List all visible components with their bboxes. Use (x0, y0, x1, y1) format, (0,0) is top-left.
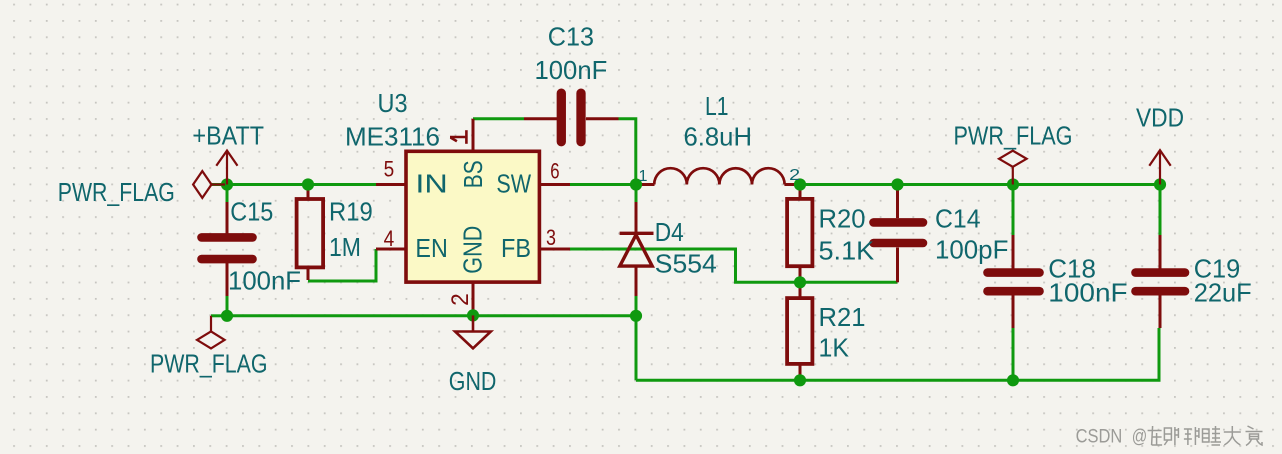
svg-text:VDD: VDD (1136, 103, 1184, 133)
diode D4 (620, 233, 654, 266)
svg-text:R19: R19 (329, 197, 373, 227)
pin R20 bottom (799, 266, 802, 282)
power PWR_FLAG bottom left (197, 316, 225, 349)
pin U3 SW stub (539, 183, 570, 186)
power VDD arrow (1149, 150, 1170, 184)
watermark chinese glyphs (1148, 426, 1263, 446)
svg-text:1K: 1K (819, 333, 850, 363)
node pin2/GND junction (467, 309, 479, 321)
pin R19 top (307, 185, 310, 200)
node R21 bottom junction (794, 374, 806, 386)
svg-text:ME3116: ME3116 (345, 122, 440, 152)
wire FB net (570, 249, 898, 282)
pin U3 EN stub (376, 248, 406, 251)
node FB/R20/R21 junction (794, 276, 806, 288)
power +BATT arrow (216, 151, 237, 185)
svg-text:22uF: 22uF (1194, 278, 1252, 308)
resistor R21 (787, 298, 812, 364)
pin C15 bottom (226, 263, 229, 296)
wire bottom rail (636, 328, 1159, 380)
svg-text:PWR_FLAG: PWR_FLAG (954, 121, 1073, 151)
svg-text:U3: U3 (378, 88, 408, 118)
node C15 bottom junction (221, 310, 233, 322)
svg-text:2: 2 (447, 293, 474, 306)
svg-text:4: 4 (384, 226, 395, 251)
op-amp U3 body (406, 151, 539, 282)
node C18 bottom junction (1007, 374, 1019, 386)
svg-text:100nF: 100nF (228, 266, 301, 296)
svg-text:2: 2 (789, 167, 800, 184)
svg-text:CSDN: CSDN (1076, 427, 1123, 448)
svg-text:5.1K: 5.1K (819, 236, 875, 266)
pin numbers dark red (384, 157, 560, 306)
wire R19 to EN (308, 249, 376, 281)
svg-text:EN: EN (415, 233, 447, 263)
pin R20 top (799, 185, 802, 200)
pin C14 top (896, 185, 899, 219)
node C18/PWR_FLAG junction (1007, 178, 1019, 190)
svg-text:R20: R20 (819, 204, 866, 234)
wire main rail left (211, 183, 377, 186)
svg-text:C15: C15 (230, 197, 273, 227)
pin C18 bottom (1012, 296, 1015, 329)
pin U3 IN stub (376, 183, 406, 186)
node L1/R20 junction (794, 178, 806, 190)
pin D4 cathode (635, 202, 638, 233)
wire C15 bottom (226, 296, 229, 316)
pin C13 right (586, 117, 619, 120)
svg-text:6: 6 (550, 158, 559, 183)
svg-text:1: 1 (639, 168, 648, 185)
svg-text:GND: GND (457, 226, 487, 274)
svg-text:SW: SW (496, 169, 531, 199)
svg-text:D4: D4 (655, 217, 684, 247)
wire main rail mid (570, 183, 638, 186)
pin L1 right (784, 183, 800, 186)
svg-text:@: @ (1132, 427, 1148, 448)
wire pwrflag bottom stub (211, 314, 227, 317)
pin D4 anode (635, 266, 638, 296)
pin L1 left (636, 183, 655, 186)
power PWR_FLAG left (193, 171, 225, 198)
resistor R19 (297, 199, 324, 267)
svg-text:100nF: 100nF (535, 55, 608, 85)
svg-text:3: 3 (546, 225, 556, 250)
pin U3 BS stub (472, 119, 475, 152)
wire D4 bottom (635, 296, 638, 316)
svg-text:GND: GND (449, 366, 497, 396)
wire C15 top (226, 185, 229, 203)
capacitor C14 (874, 222, 924, 243)
svg-text:1M: 1M (329, 232, 361, 262)
labels teal (58, 22, 1252, 397)
pin C13 left (524, 117, 557, 120)
watermark CSDN (1076, 427, 1148, 448)
svg-text:L1: L1 (705, 91, 729, 121)
node R19 top junction (302, 178, 314, 190)
capacitor C13 (561, 93, 581, 142)
wire BS to C13 (473, 117, 524, 120)
svg-text:PWR_FLAG: PWR_FLAG (150, 349, 268, 379)
wire C18 top (1012, 185, 1015, 236)
node PWR_FLAG/+BATT junction (221, 178, 233, 190)
capacitor C18 (988, 273, 1040, 292)
node SW/C13/L1/D4 junction (630, 178, 642, 190)
svg-text:BS: BS (458, 160, 488, 188)
svg-text:100nF: 100nF (1048, 278, 1127, 308)
wire gnd rail (227, 314, 636, 317)
pin C18 top (1012, 235, 1015, 269)
svg-text:6.8uH: 6.8uH (684, 122, 753, 152)
capacitor C19 (1136, 273, 1186, 292)
pin R21 top (799, 282, 802, 298)
wire main rail right (797, 183, 1160, 186)
svg-text:R21: R21 (819, 302, 866, 332)
node D4 bottom junction (630, 310, 642, 322)
resistor R20 (787, 199, 812, 266)
pin C19 bottom (1159, 296, 1162, 329)
svg-text:100pF: 100pF (935, 235, 1008, 265)
node C14 top junction (891, 178, 903, 190)
pin R19 bottom (307, 267, 310, 280)
wire D4 top (635, 185, 638, 203)
capacitor C15 (202, 237, 253, 259)
pin R21 bottom (799, 364, 802, 380)
node VDD/C19 junction (1154, 178, 1166, 190)
pin number 1 rotated (drawn) (450, 130, 467, 144)
ground symbol (455, 315, 491, 348)
wire C13 to SW node (619, 119, 636, 185)
wire C18 bottom (1012, 328, 1015, 380)
svg-text:+BATT: +BATT (193, 121, 265, 151)
inductor L1 (654, 168, 784, 184)
svg-text:PWR_FLAG: PWR_FLAG (58, 177, 175, 207)
power PWR_FLAG top (999, 151, 1027, 185)
svg-text:FB: FB (501, 233, 531, 263)
wire D4 to bottom rail (635, 316, 638, 381)
pin C19 top (1159, 235, 1162, 269)
svg-text:5: 5 (384, 157, 395, 182)
pin C14 bottom (896, 248, 899, 283)
svg-text:C13: C13 (548, 22, 594, 52)
pin U3 FB stub (539, 248, 570, 251)
pin U3 pin2 stub (472, 282, 475, 315)
svg-text:IN: IN (415, 169, 447, 199)
svg-text:C14: C14 (935, 204, 981, 234)
svg-text:S554: S554 (655, 249, 717, 279)
pin C15 top (226, 202, 229, 234)
wire C19 top (1159, 185, 1162, 236)
